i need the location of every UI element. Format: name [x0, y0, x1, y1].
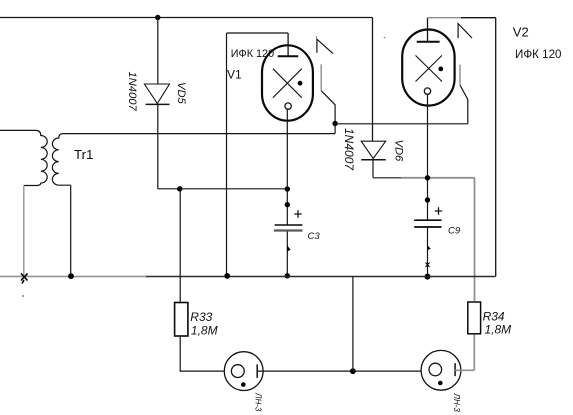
node C3 upper dot: [285, 202, 290, 207]
wire bottom return bus gray: [0, 276, 146, 278]
wire bottom return bus black: [146, 276, 496, 278]
wire lamp bus to HL2: [353, 370, 429, 372]
node C9 top junction: [425, 175, 430, 180]
wire V1 cathode lead: [286, 109, 288, 189]
wire HL1 right lead: [257, 370, 353, 372]
V2 anode lead: [427, 18, 429, 42]
wire V1 trigger electrode gray segment: [320, 64, 322, 90]
transformer Tr1 secondary winding: [52, 134, 70, 186]
V2 crossed electrodes: [416, 55, 443, 81]
svg-text:VD6: VD6: [393, 140, 405, 163]
wire trigger bus to V2: [335, 123, 468, 125]
diode VD5: [144, 84, 169, 104]
svg-text:Tr1: Tr1: [74, 147, 93, 162]
node C9 bottom junction: [425, 274, 431, 280]
wire VD5 cathode: [157, 104, 159, 188]
diode VD6: [361, 141, 386, 158]
lamp HL2 envelope: [421, 350, 461, 390]
wire Tr1 secondary bottom lead: [70, 185, 72, 276]
wire right side drop: [495, 18, 497, 277]
wire VD6 anode drop from top bus: [372, 18, 374, 142]
flash tube V2 ИФК-120 envelope: [402, 30, 454, 106]
flash tube V1 ИФК-120 envelope: [262, 45, 313, 120]
svg-text:1N4007: 1N4007: [342, 128, 356, 171]
wire R33 top lead: [179, 189, 181, 303]
wire V1 anode loop left drop: [226, 33, 228, 276]
wire VD6 to C9 black: [373, 177, 402, 179]
svg-text:V1: V1: [227, 68, 242, 82]
node C3 top: [285, 186, 290, 191]
speck near V2: [384, 37, 386, 39]
svg-text:VD5: VD5: [175, 82, 187, 105]
V1 crossed electrodes: [273, 69, 302, 98]
svg-text:1,8M: 1,8M: [191, 323, 218, 337]
node lamp bus junction: [350, 368, 356, 374]
wire R34 top gray: [474, 178, 476, 301]
wire VD6 to R34 gray: [402, 177, 475, 179]
svg-text:C3: C3: [308, 231, 321, 242]
node Tr1 secondary return: [68, 273, 74, 279]
V1 cathode circle: [285, 103, 291, 109]
V2 anode bar: [417, 41, 440, 43]
svg-text:ЛН-3: ЛН-3: [452, 393, 461, 413]
wire C9 bottom lead: [427, 227, 429, 277]
wire center drop to lamp bus: [352, 277, 354, 372]
node R33 tap: [177, 186, 182, 191]
capacitor C3 plus: [294, 210, 301, 217]
node Tr1 primary return x-mark: [21, 274, 28, 284]
lamp HL1 dot: [241, 382, 246, 387]
svg-text:ЛН-3: ЛН-3: [254, 392, 263, 412]
svg-text:V2: V2: [513, 24, 529, 39]
speck near V1: [316, 36, 318, 38]
V2 trigger flash symbol: [458, 24, 472, 38]
speck below x-mark: [22, 295, 24, 297]
wire V2 anode top black: [461, 17, 496, 19]
capacitor C3: [275, 224, 303, 226]
capacitor C9 plus: [435, 207, 442, 214]
capacitor C9: [414, 219, 441, 221]
node V1 anode loop return: [224, 273, 230, 279]
wire C3 bottom lead: [286, 232, 288, 276]
wire HL2 right lead gray: [455, 369, 474, 371]
C3 lead arrow mark: [287, 246, 290, 252]
lamp HL1 contact bar: [256, 364, 258, 378]
wire rectified output horizontal: [158, 188, 287, 190]
svg-text:1,8M: 1,8M: [485, 322, 512, 336]
V2 cathode circle: [424, 88, 430, 94]
V2 gas dot: [438, 67, 443, 72]
lamp HL2 dot: [438, 381, 443, 386]
lamp HL2 contact bar: [454, 363, 456, 376]
svg-text:ИФК 120: ИФК 120: [515, 48, 561, 61]
wire top supply bus: [0, 17, 373, 19]
wire VD5 anode: [157, 18, 159, 85]
wire trigger node riser: [321, 91, 335, 134]
lamp HL1 envelope: [224, 352, 263, 391]
wire V2 trigger electrode gray segment: [459, 65, 461, 85]
node V1 trigger junction: [332, 121, 337, 126]
wire V2 anode top gray: [428, 17, 462, 19]
lamp HL2 inner circle: [429, 363, 442, 376]
resistor R34: [468, 302, 481, 334]
wire Tr1 primary bottom lead: [23, 186, 25, 277]
V1 gas dot: [298, 81, 303, 86]
svg-text:ИФК 120: ИФК 120: [231, 48, 274, 60]
C9 lead arrow mark: [428, 246, 431, 251]
lamp HL1 inner circle: [231, 365, 244, 378]
wire C3 top lead: [286, 189, 288, 225]
svg-text:R33: R33: [190, 310, 212, 324]
svg-text:C9: C9: [448, 226, 461, 237]
node C9 upper dot: [425, 197, 430, 202]
C9 lead x mark: [426, 263, 430, 268]
resistor R33: [175, 303, 188, 337]
wire V1 anode loop top: [227, 32, 289, 34]
wire V2 trigger electrode drop: [460, 85, 468, 124]
node top bus / VD5 junction: [155, 15, 160, 20]
svg-text:1N4007: 1N4007: [126, 72, 138, 112]
wire VD6 cathode: [372, 160, 374, 178]
wire V2 cathode lead: [427, 94, 429, 220]
V1 trigger flash symbol: [317, 39, 333, 53]
wire R34 bottom lead gray: [473, 335, 475, 371]
wire R33 bottom lead: [180, 336, 231, 371]
V1 anode bar: [278, 55, 299, 57]
wire Tr1 secondary to trigger node: [63, 133, 335, 135]
V1 anode lead: [287, 33, 289, 56]
transformer Tr1 primary winding: [0, 130, 47, 185]
node C3 bottom junction: [285, 273, 290, 278]
svg-text:R34: R34: [483, 309, 505, 323]
